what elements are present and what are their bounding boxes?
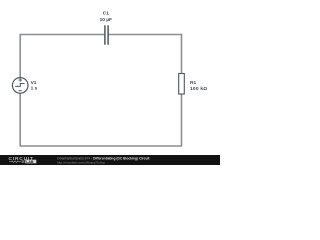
svg-text:LAB: LAB xyxy=(26,160,34,164)
svg-text:1 s: 1 s xyxy=(31,85,38,91)
svg-text:R1: R1 xyxy=(190,80,196,86)
svg-text:http://circuitlab.com/c/f6mpq/: http://circuitlab.com/c/f6mpq/7kx8qj xyxy=(57,160,105,164)
svg-text:10 µF: 10 µF xyxy=(100,17,112,23)
svg-text:V1: V1 xyxy=(31,80,37,86)
svg-text:100 kΩ: 100 kΩ xyxy=(190,86,207,92)
svg-text:C1: C1 xyxy=(103,11,109,17)
